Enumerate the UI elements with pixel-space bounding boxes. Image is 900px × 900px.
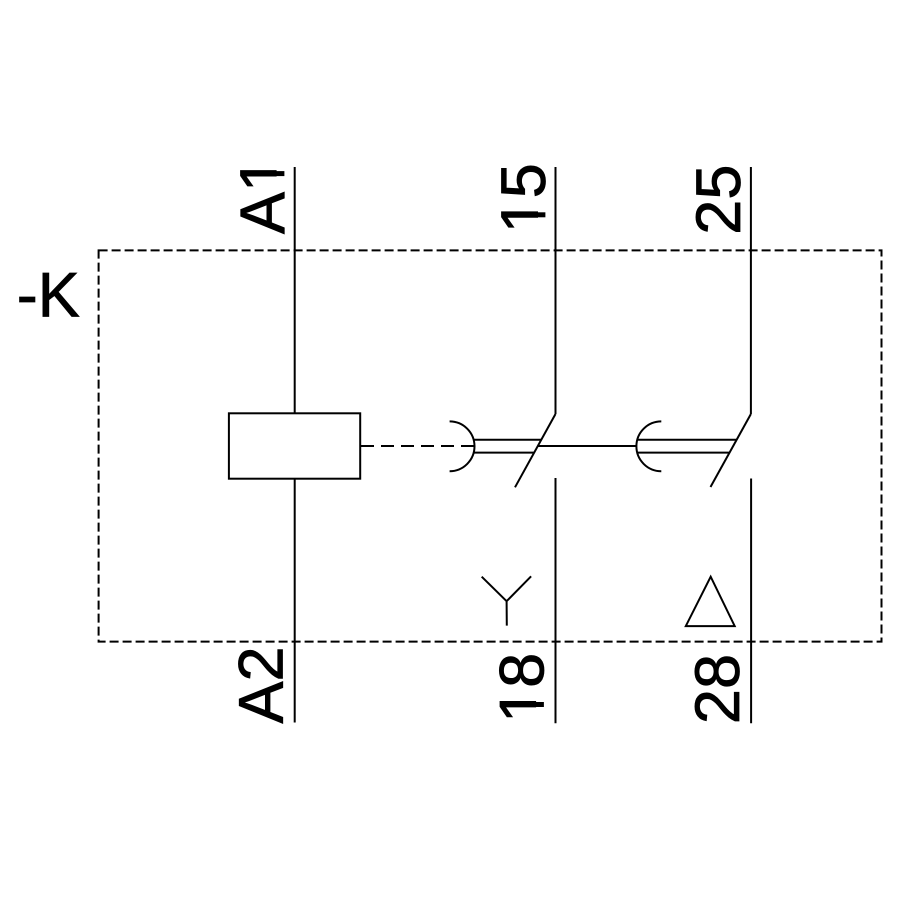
serif mask for digit 1 of 18 xyxy=(536,707,545,720)
svg-text:15: 15 xyxy=(489,163,559,233)
svg-text:A2: A2 xyxy=(227,646,297,723)
delta (triangle) symbol under contact 25-28 xyxy=(686,577,735,626)
on-delay half-circle symbol of contact 15-18 xyxy=(450,421,475,471)
relay boundary frame (dashed) xyxy=(99,250,882,641)
svg-text:25: 25 xyxy=(684,165,754,235)
linkage single line between contacts xyxy=(538,445,637,447)
linkage double line to contact 15-18 xyxy=(474,439,541,441)
wire A1 (top coil lead) xyxy=(294,167,296,413)
coil K (rectangle) xyxy=(229,413,360,478)
wire 15 (top terminal) xyxy=(555,167,557,414)
star (wye) symbol under contact 15-18 xyxy=(482,576,531,625)
mechanical linkage dashed line from coil xyxy=(361,445,474,447)
wire A2 (bottom coil lead) xyxy=(294,479,296,723)
contact 25-28 moving arm xyxy=(711,414,751,487)
svg-text:18: 18 xyxy=(487,653,557,723)
serif mask for digit 1 of 15 xyxy=(538,217,547,230)
contact 15-18 moving arm xyxy=(515,414,556,487)
wire 28 (bottom terminal) xyxy=(750,479,752,724)
serif mask for digit 1 of A1 xyxy=(277,176,286,189)
off-delay half-circle symbol of contact 25-28 xyxy=(636,421,661,471)
wire 18 (bottom terminal) xyxy=(555,478,557,723)
linkage double line to contact 25-28 xyxy=(637,439,736,441)
svg-text:28: 28 xyxy=(683,654,753,724)
svg-text:-K: -K xyxy=(17,260,80,330)
svg-text:A1: A1 xyxy=(228,157,298,234)
wire 25 (top terminal) xyxy=(750,167,752,414)
